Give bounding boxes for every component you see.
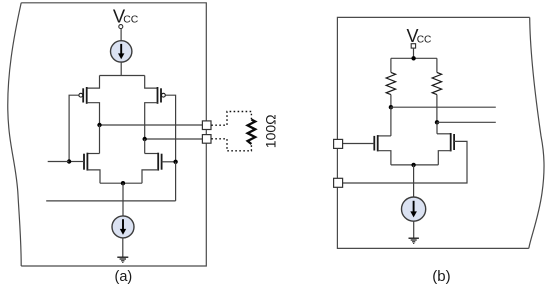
- ground symbol (a): [117, 257, 128, 262]
- nmos M6 source lead: [438, 151, 450, 165]
- svg-text:(a): (a): [115, 269, 133, 285]
- pad in2 (b): [334, 178, 343, 187]
- wire I2 to ground: [122, 238, 124, 257]
- nmos M5 source lead: [378, 151, 391, 165]
- Vcc terminal (a): [119, 25, 123, 29]
- node out1 junction: [97, 123, 101, 127]
- current source I2: [112, 216, 134, 238]
- node drain2 (b): [435, 120, 439, 124]
- resistor R1 zigzag: [386, 72, 395, 94]
- pmos M1 gate bubble: [79, 93, 83, 97]
- resistor R2 top lead: [436, 58, 438, 72]
- nmos M3 source lead: [87, 170, 100, 183]
- nmos M3 gate bar: [83, 154, 85, 170]
- wire drain column left: [99, 125, 101, 154]
- node out2 junction: [143, 137, 147, 141]
- wire output line 1: [100, 124, 203, 126]
- wire Vcc to current source I1: [120, 29, 122, 41]
- wire M4 gate to node Y: [162, 161, 176, 163]
- nmos M5 channel bar: [377, 135, 379, 151]
- wire output line 1 (b): [391, 106, 496, 108]
- nmos M5 gate bar: [373, 136, 375, 151]
- svg-text:CC: CC: [417, 34, 432, 45]
- wire output line 2: [145, 138, 203, 140]
- pad out1 (a): [202, 121, 211, 130]
- nmos M4 gate bar: [161, 154, 163, 170]
- nmos M6 channel bar: [450, 133, 452, 151]
- svg-text:CC: CC: [123, 15, 139, 26]
- nmos M5 drain lead: [378, 135, 391, 137]
- nmos M3 channel bar: [86, 153, 88, 171]
- node X junction: [67, 159, 71, 163]
- wire M3 gate to node X: [69, 161, 84, 163]
- wire tail rail: [100, 182, 142, 184]
- resistor R1 top lead: [390, 58, 392, 72]
- pmos M1 channel bar: [86, 87, 88, 104]
- wire drain2 down (b): [436, 122, 438, 134]
- wire M2 gate to node Y: [165, 95, 175, 162]
- wire Vcc to rail (b): [413, 48, 415, 58]
- svg-text:100Ω: 100Ω: [263, 114, 279, 148]
- node Vcc junction (b): [411, 56, 415, 60]
- Vcc label (b): [407, 26, 432, 46]
- wire tail to current source I2: [122, 183, 124, 216]
- pmos M2 source lead: [145, 76, 158, 89]
- wire tail to current source I3: [413, 165, 415, 197]
- current source I1: [111, 41, 132, 62]
- wire drain column right: [144, 139, 146, 154]
- wire input stub 2: [46, 200, 175, 202]
- nmos M4 channel bar: [157, 153, 159, 171]
- pad out2 (a): [202, 135, 211, 144]
- nmos M4 source lead: [142, 170, 158, 183]
- svg-text:(b): (b): [432, 268, 450, 285]
- Vcc label (a): [113, 5, 139, 26]
- node drain1 (b): [389, 105, 393, 109]
- nmos M6 drain lead: [437, 133, 451, 135]
- wire node Y down: [175, 162, 177, 201]
- pmos M1 gate bar: [82, 88, 84, 102]
- wire input stub 1: [48, 161, 69, 163]
- resistor R1 bottom lead: [390, 95, 392, 108]
- wire top rail (b): [391, 57, 437, 59]
- nmos M3 drain lead: [87, 153, 99, 155]
- node tail junction (b): [411, 163, 415, 167]
- chip outline box (b): [337, 17, 544, 248]
- wire drain1 down (b): [390, 107, 392, 136]
- wire M5 gate to pad in1: [343, 143, 375, 145]
- node Y junction: [173, 160, 177, 164]
- pmos M2 drain lead: [145, 103, 158, 139]
- dashed wire pad2 to resistor bottom: [211, 139, 251, 151]
- wire tail rail (b): [391, 164, 438, 166]
- wire output line 2 (b): [437, 121, 496, 123]
- Vcc terminal (b): [411, 44, 415, 48]
- pad in1 (b): [334, 139, 343, 148]
- pmos M2 gate bubble: [162, 93, 166, 97]
- wire I3 to ground: [413, 221, 415, 238]
- resistor 100 ohm zigzag: [248, 120, 256, 145]
- node tail junction: [121, 181, 125, 185]
- pmos M1 source lead: [87, 76, 100, 89]
- pmos M2 gate bar: [160, 88, 162, 102]
- wire top rail: [100, 75, 145, 77]
- wire I1 to top rail: [120, 62, 122, 75]
- pmos M1 drain lead: [87, 103, 100, 125]
- current source I3: [402, 197, 426, 221]
- resistor R2 bottom lead: [436, 95, 438, 123]
- chip outline box (a): [8, 3, 207, 266]
- dashed wire pad1 to resistor top: [211, 112, 251, 126]
- wire M6 gate to pad in2: [343, 141, 467, 183]
- nmos M4 drain lead: [145, 153, 159, 155]
- resistor R2 zigzag: [432, 72, 441, 94]
- ground symbol (b): [409, 238, 419, 243]
- nmos M6 gate bar: [453, 134, 455, 150]
- pmos M2 channel bar: [157, 87, 159, 104]
- wire M1 gate to node X: [69, 95, 79, 161]
